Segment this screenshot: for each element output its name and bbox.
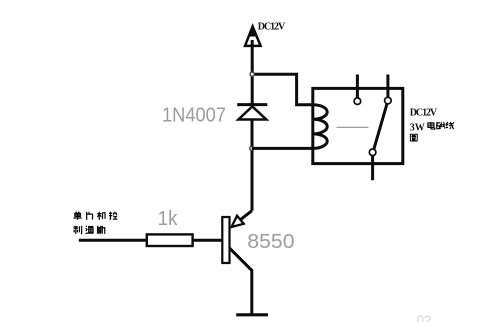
wire: resistor to transistor base	[193, 239, 223, 242]
transistor Q1 emitter arrowhead (open, pointing to base bar)	[232, 216, 244, 227]
relay coil (3 arcs)	[313, 105, 327, 149]
relay common contact circle (bottom)	[369, 149, 376, 156]
power supply arrow DC12V	[245, 25, 261, 46]
svg-text:3W: 3W	[410, 122, 425, 133]
char 片	[87, 212, 93, 220]
diode D1 1N4007 cathode bar	[237, 103, 267, 106]
relay contact terminal stub (top right)	[386, 75, 389, 98]
wire: base wire from left	[79, 239, 147, 242]
resistor R1 body	[147, 234, 193, 246]
svg-text:DC12V: DC12V	[258, 22, 286, 33]
svg-text:1N4007: 1N4007	[162, 105, 226, 127]
relay armature link (gray line)	[337, 126, 369, 128]
diode D1 1N4007 triangle	[238, 106, 266, 119]
transistor Q1 8550 base bar	[222, 217, 229, 263]
wire: diode anode down to node B and transistor emitter	[251, 120, 254, 211]
char 线	[446, 122, 454, 129]
wire: node A to relay coil top (right, down, right)	[252, 74, 313, 105]
char 断	[97, 226, 105, 234]
svg-text:DC12V: DC12V	[410, 108, 438, 119]
relay switch blade (diagonal)	[374, 104, 387, 149]
relay contact circle (top left)	[354, 98, 361, 105]
relay K1 box	[313, 88, 403, 163]
char 机	[97, 212, 105, 220]
char 圈	[410, 134, 417, 141]
node B junction circle	[250, 146, 254, 150]
relay contact terminal stub (top left)	[356, 75, 359, 99]
wire: V+ vertical from arrow to diode cathode	[251, 40, 254, 105]
transistor Q1 emitter line	[240, 211, 251, 220]
char 制	[74, 226, 82, 234]
wire: node B to relay coil bottom	[252, 147, 313, 150]
char 磁	[436, 122, 445, 129]
svg-text:8550: 8550	[247, 231, 294, 253]
label block: MCU control text 单片机控制通断	[74, 212, 118, 234]
wire: relay common terminal stub down	[371, 156, 374, 181]
char 控	[109, 212, 117, 219]
svg-text:1k: 1k	[158, 208, 178, 230]
char 通	[85, 226, 93, 234]
label block: relay coil text 电磁线圈	[410, 122, 454, 141]
char 电	[428, 122, 435, 129]
relay contact circle (top right)	[385, 97, 392, 104]
char 单	[74, 212, 82, 220]
ground	[236, 313, 268, 316]
transistor Q1 collector line	[230, 248, 252, 314]
node A junction circle	[250, 72, 254, 76]
svg-text:02: 02	[417, 313, 432, 322]
